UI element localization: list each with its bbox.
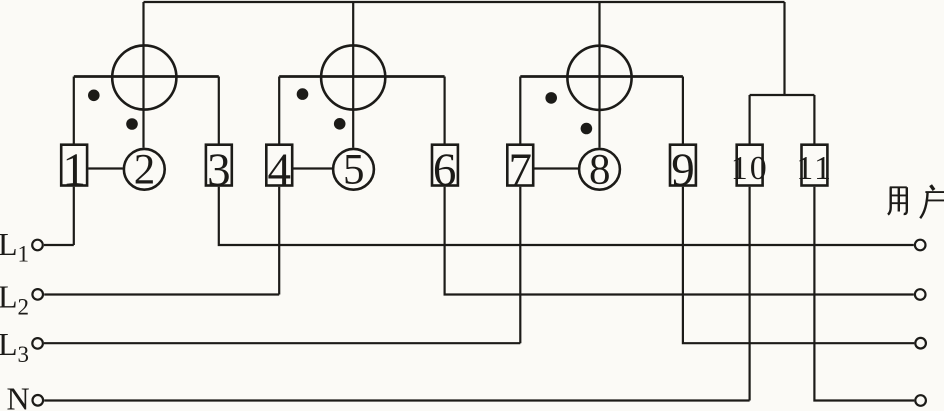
wire stem neutral branch [783, 2, 785, 95]
svg-text:L: L [0, 226, 18, 262]
wire L1 source to terminal 1 [44, 187, 74, 245]
wire L2 source to terminal 4 [44, 187, 279, 295]
svg-text:11: 11 [796, 150, 833, 187]
wire element 2 right drop to terminal 6 [444, 77, 446, 144]
wire drop to terminal 10 [748, 95, 750, 144]
wire terminal 1 to terminal 2 [88, 167, 123, 169]
wire drop to terminal 11 [813, 95, 815, 144]
L1 load terminal [915, 240, 926, 251]
wire terminal 7 to terminal 8 [534, 167, 578, 169]
svg-text:5: 5 [343, 146, 365, 193]
wire terminal 6 to load L2 [445, 187, 914, 295]
node N label [7, 380, 30, 411]
wire neutral bridge [750, 94, 815, 96]
terminal 7 box [507, 145, 533, 186]
svg-text:7: 7 [508, 144, 532, 196]
svg-text:L: L [0, 326, 18, 362]
wire terminal 3 to load L1 [219, 187, 914, 245]
wire top voltage bus [144, 1, 785, 3]
element 1 potential coil circle [112, 45, 176, 109]
node load label 用户 [888, 185, 944, 218]
wire N source to terminal 10 [44, 187, 749, 401]
wire stem element 2 [352, 2, 354, 148]
wire terminal 4 to terminal 5 [293, 167, 332, 169]
wire element 3 left drop to terminal 7 [519, 77, 521, 144]
wire element 1 left drop to terminal 1 [73, 77, 75, 144]
terminal 11 box [802, 145, 828, 186]
element 1 polarity dot upper [88, 90, 100, 102]
terminal 4 box [266, 145, 292, 186]
svg-text:1: 1 [62, 144, 86, 196]
svg-text:8: 8 [589, 146, 611, 193]
element 2 potential coil circle [321, 45, 385, 109]
wire stem element 1 [142, 2, 144, 148]
svg-text:N: N [7, 380, 30, 411]
terminal 1 box [61, 145, 87, 186]
element 1 current coil bar [74, 75, 219, 78]
L1 source terminal [32, 240, 43, 251]
element 2 current coil bar [279, 75, 444, 78]
svg-text:2: 2 [134, 146, 156, 193]
svg-text:3: 3 [207, 144, 231, 196]
svg-text:3: 3 [18, 342, 30, 367]
L3 source terminal [32, 338, 43, 349]
L2 load terminal [915, 289, 926, 300]
svg-text:4: 4 [267, 144, 291, 196]
wire element 1 right drop to terminal 3 [218, 77, 220, 144]
node L1 label [0, 226, 29, 267]
wire terminal 11 to load N [814, 187, 914, 401]
L2 source terminal [32, 289, 43, 300]
node L2 label [0, 278, 29, 319]
node L3 label [0, 326, 29, 367]
svg-text:1: 1 [18, 242, 30, 267]
svg-text:2: 2 [18, 295, 30, 320]
terminal 8 circle [579, 149, 620, 190]
wire L3 source to terminal 7 [44, 187, 520, 344]
terminal 9 box [670, 145, 696, 186]
terminal 5 circle [333, 149, 374, 190]
N load terminal [915, 395, 926, 406]
terminal 3 box [206, 145, 232, 186]
L3 load terminal [915, 338, 926, 349]
wire terminal 9 to load L3 [683, 187, 914, 344]
terminal 10 box [737, 145, 763, 186]
wire element 2 left drop to terminal 4 [278, 77, 280, 144]
element 3 polarity dot lower [581, 123, 593, 135]
element 2 polarity dot lower [334, 118, 346, 130]
terminal 2 circle [124, 149, 165, 190]
N source terminal [33, 395, 44, 406]
wire stem element 3 [598, 2, 600, 148]
terminal 6 box [432, 145, 458, 186]
element 3 potential coil circle [567, 46, 631, 110]
element 3 polarity dot upper [545, 92, 557, 104]
element 3 current coil bar [520, 75, 683, 78]
svg-text:10: 10 [731, 150, 769, 187]
svg-text:6: 6 [433, 144, 457, 196]
element 1 polarity dot lower [126, 118, 138, 130]
svg-text:9: 9 [671, 144, 695, 196]
element 2 polarity dot upper [297, 88, 309, 100]
svg-text:L: L [0, 278, 18, 314]
wire element 3 right drop to terminal 9 [682, 77, 684, 144]
